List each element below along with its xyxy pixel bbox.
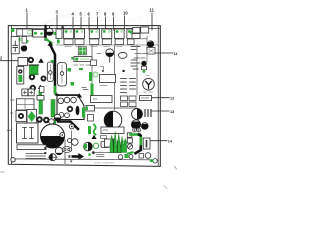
capacitor C8 ring xyxy=(60,133,65,138)
leader line 1 xyxy=(26,13,28,29)
capacitor C4 (half black) xyxy=(97,49,114,62)
slider S1 xyxy=(47,62,53,82)
circle slash xyxy=(127,144,132,149)
box under CN3 xyxy=(88,115,94,122)
green mark left of U2 xyxy=(71,57,73,60)
green pill bottom xyxy=(150,159,154,162)
wire x137 xyxy=(136,45,138,95)
buzzer BZ1 (Y circle) xyxy=(143,76,155,92)
green bar GB3 xyxy=(82,108,85,118)
svg-text:13: 13 xyxy=(170,110,174,114)
resistor R2 (leader 12) xyxy=(140,96,152,101)
green trace segment xyxy=(54,87,57,93)
terminal TB1 xyxy=(22,89,34,96)
box right of U2 xyxy=(91,60,97,66)
green chip G4 xyxy=(71,82,75,86)
transistor Q1 xyxy=(141,61,146,73)
silk text lines xyxy=(26,154,46,159)
watermark right xyxy=(129,14,144,23)
J9 green mark xyxy=(130,31,132,34)
inner right border xyxy=(157,26,159,166)
board outline xyxy=(8,26,160,167)
capacitor C7 xyxy=(69,124,74,129)
wire W1 xyxy=(95,107,138,109)
crossed circles xyxy=(133,128,141,132)
leader line 6 xyxy=(88,17,90,30)
photodiode D3 eye xyxy=(48,154,57,161)
header module K2 xyxy=(56,29,62,44)
wire under waveform xyxy=(92,152,121,154)
header module K3 xyxy=(64,29,74,45)
circle CD1 xyxy=(145,153,151,159)
transformer TR1 xyxy=(17,123,47,150)
triangle TP3 xyxy=(77,93,82,97)
header labels xyxy=(65,46,122,48)
connector CN3 xyxy=(86,106,95,112)
svg-text:10: 10 xyxy=(123,11,128,16)
K1 label xyxy=(100,85,107,87)
wire x71.5 xyxy=(71,131,73,149)
connector J9 top-right xyxy=(132,27,149,39)
inner left border xyxy=(10,26,12,164)
stray mark right xyxy=(175,167,177,170)
via pad xyxy=(92,151,94,154)
green pad GD2 xyxy=(125,154,129,158)
silk dashes center xyxy=(97,154,105,156)
via ring VA1 xyxy=(49,119,54,124)
relay K1 xyxy=(100,75,116,83)
green pad left of D4 xyxy=(84,144,87,149)
capacitor C5 small half-black xyxy=(54,114,61,121)
inductor L1 ellipse xyxy=(118,52,127,58)
green bar GB2b xyxy=(52,120,56,126)
leader line 9 xyxy=(113,17,115,30)
green bar GB5 xyxy=(88,126,91,134)
small box W2 xyxy=(40,87,45,93)
stray mark bottom left xyxy=(1,171,4,173)
relay green G1 xyxy=(29,65,39,75)
connector pins ||| xyxy=(145,110,151,117)
wire x147 xyxy=(146,36,148,62)
leader line 8 xyxy=(105,17,107,30)
arrow tail mark xyxy=(69,155,71,157)
triangle TP0 xyxy=(48,41,54,46)
svg-text:xxxx xxxxxxx: xxxx xxxxxxx xyxy=(95,161,115,165)
watermark top xyxy=(41,10,77,27)
green squiggle GS1 xyxy=(94,125,96,135)
section line under header row xyxy=(56,44,158,46)
label plate U2 green frame xyxy=(74,57,92,62)
arrow icon xyxy=(72,155,79,158)
slider S2 xyxy=(58,63,67,87)
dash pair right of U2 xyxy=(82,87,86,89)
green pad top-left xyxy=(11,28,15,32)
IC socket U1 grid xyxy=(78,47,86,55)
LED D2 green diamond xyxy=(27,110,37,124)
green chip G3 xyxy=(68,68,72,72)
tick marks left border xyxy=(11,99,15,101)
wire x114.5 xyxy=(114,45,116,110)
green bar GB1 xyxy=(91,84,94,102)
trace T1b green diagonal xyxy=(46,39,52,43)
resistor R1 (leader 2 target) xyxy=(18,58,28,66)
leader line 5 xyxy=(80,17,82,30)
header module K7 xyxy=(115,29,125,45)
big connector CN1 xyxy=(57,96,84,130)
small boxes above C10 xyxy=(121,96,137,107)
inner bottom border xyxy=(11,159,158,160)
via dot 2 xyxy=(102,70,104,72)
capacitor C1 (half black) xyxy=(46,27,57,36)
trace T2 green vertical xyxy=(140,138,143,144)
header module K4 xyxy=(75,29,85,45)
capacitor C13 black ball small xyxy=(141,123,148,130)
labels under U2 xyxy=(74,64,90,66)
tiny pads left of C9 xyxy=(44,147,46,149)
leader line 12 (right) xyxy=(152,97,170,99)
box behind waveform xyxy=(105,139,114,147)
capacitor C11 right-black xyxy=(132,109,143,120)
tiny box LB3 xyxy=(101,136,107,139)
green pad by trace xyxy=(51,60,54,65)
capacitor C10 big left-black xyxy=(104,111,122,129)
capacitor C9 quarter black xyxy=(55,147,62,154)
capacitor C2 left xyxy=(11,37,20,54)
trimmer VR3 xyxy=(30,85,36,91)
triangle TP4 xyxy=(92,135,97,139)
trace T2 green horizontal xyxy=(131,133,140,136)
svg-text:11: 11 xyxy=(174,52,178,56)
connector J1 top-left xyxy=(17,29,32,43)
trace T2 green low xyxy=(128,152,133,153)
connector CN2 xyxy=(17,99,35,110)
connector J2 xyxy=(33,30,45,38)
trace T1c thick black xyxy=(51,46,78,96)
trimmer VR5 xyxy=(36,116,43,123)
knob VR4 xyxy=(41,76,47,82)
via V3 xyxy=(118,155,123,160)
capacitor C6 big half-black xyxy=(41,124,65,148)
TB1 crosses xyxy=(23,91,32,94)
resistor bank RN2 xyxy=(121,79,136,93)
switch SW1 gear in box xyxy=(16,111,27,122)
capacitor C15 xyxy=(93,143,98,148)
leader line 11 (right) xyxy=(155,52,173,54)
leader line 4 xyxy=(72,17,74,30)
green bar GB1b xyxy=(89,72,92,81)
leader line 14 (right) xyxy=(147,140,167,142)
capacitor C12 black ball xyxy=(131,120,140,129)
diode D4 half-black circle xyxy=(84,142,93,151)
component box B1 xyxy=(127,133,132,143)
green bar above D1 xyxy=(39,90,43,96)
triangle TP2 xyxy=(38,85,43,89)
trimmer VR6 xyxy=(43,117,50,124)
small rects bottom right xyxy=(139,154,144,159)
capacitor C14 right column upper xyxy=(147,40,155,54)
header module K8 xyxy=(127,29,135,45)
resistor bank RN1 xyxy=(131,47,140,70)
trimmer VR2 xyxy=(29,74,35,80)
green ring GR1 xyxy=(93,72,98,77)
leader line 7 xyxy=(97,17,99,30)
svg-text:xxxx xxxxx: xxxx xxxxx xyxy=(75,157,92,161)
dash pair DP1 xyxy=(134,54,146,59)
tiny mark bottom xyxy=(70,161,73,163)
capacitor C2b black xyxy=(21,45,27,51)
header module K5 xyxy=(89,29,99,45)
stray mark bottom right xyxy=(164,186,167,189)
trace T1a thick black vertical xyxy=(44,26,46,40)
header module K6 xyxy=(102,29,112,45)
section line right xyxy=(130,38,147,40)
header pin mark xyxy=(62,26,64,28)
green bar GB2 xyxy=(51,100,55,118)
triangle TP1 xyxy=(38,58,44,63)
oval with dots xyxy=(62,147,72,153)
leader line 10 xyxy=(151,13,153,30)
wire x65 bottom xyxy=(64,140,66,164)
mounting hole bottom-right xyxy=(153,159,157,163)
CN3 green edge xyxy=(86,107,88,111)
green dash G5 xyxy=(79,68,83,70)
svg-text:11: 11 xyxy=(150,8,155,13)
leader line 9b xyxy=(124,16,126,29)
leader line 3 xyxy=(56,15,58,29)
mounting hole bottom-left xyxy=(11,158,15,162)
via dot xyxy=(123,70,125,72)
IC box LB2 xyxy=(101,127,124,134)
IC LB1 xyxy=(91,96,113,103)
svg-text:12: 12 xyxy=(170,97,174,101)
wire x92 xyxy=(91,45,93,83)
waveform green xyxy=(110,132,131,153)
trace T2 thick elbow xyxy=(136,135,141,154)
green dot in J2 right xyxy=(40,32,43,35)
via V4 xyxy=(129,155,133,159)
inner top border xyxy=(11,27,160,29)
jumper block JB1 xyxy=(101,142,109,148)
jumper circles OO xyxy=(68,139,79,146)
leader line 2 (left) xyxy=(1,60,20,62)
green bar GB4 xyxy=(39,101,43,115)
bracket mark xyxy=(100,67,104,70)
trimmer VR1 xyxy=(28,57,34,63)
diode D1 box xyxy=(37,96,44,101)
leader line 13 (right) xyxy=(152,110,169,112)
resistor R3 vertical xyxy=(143,138,150,149)
capacitor C3 tall xyxy=(17,67,24,85)
